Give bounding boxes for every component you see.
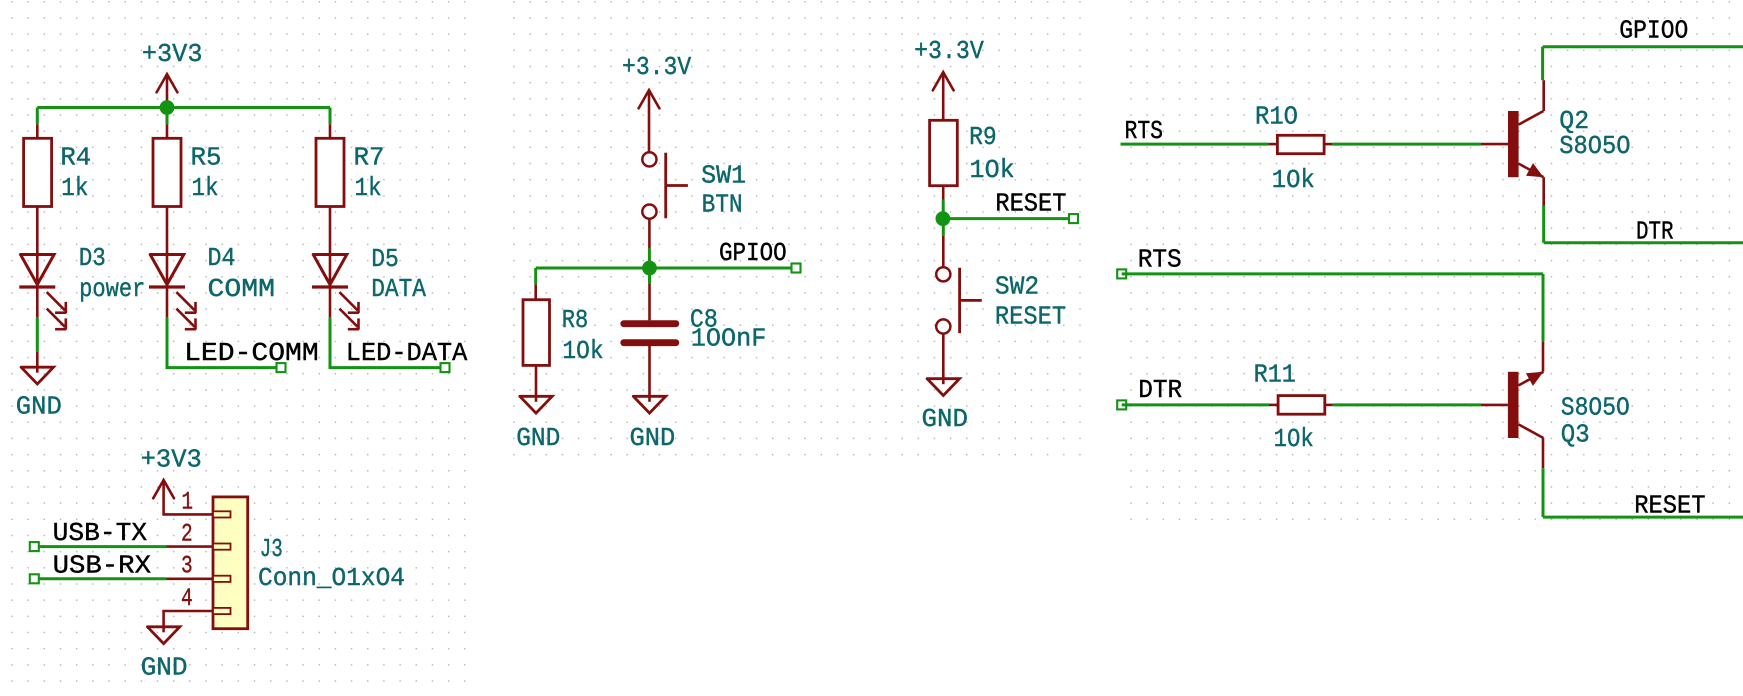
svg-text:S8O5O: S8O5O [1559, 131, 1630, 161]
svg-text:1Ok: 1Ok [970, 155, 1015, 185]
svg-text:1k: 1k [355, 173, 382, 203]
svg-text:S8O5O: S8O5O [1561, 393, 1630, 423]
svg-text:+3.3V: +3.3V [914, 36, 984, 66]
svg-text:RESET: RESET [1634, 491, 1705, 521]
svg-text:R5: R5 [191, 142, 222, 172]
svg-text:R11: R11 [1254, 359, 1296, 389]
svg-text:+3V3: +3V3 [142, 39, 203, 69]
svg-text:Conn_O1xO4: Conn_O1xO4 [258, 563, 405, 593]
svg-text:SW1: SW1 [701, 160, 746, 190]
svg-text:D4: D4 [208, 243, 236, 273]
svg-text:DTR: DTR [1636, 217, 1674, 247]
svg-text:GND: GND [630, 423, 676, 453]
svg-text:GND: GND [16, 392, 62, 422]
svg-text:GND: GND [922, 404, 969, 434]
svg-text:R4: R4 [60, 142, 91, 172]
svg-text:R9: R9 [969, 122, 997, 152]
svg-text:2: 2 [181, 520, 193, 549]
svg-text:R1O: R1O [1255, 101, 1298, 131]
svg-text:1Ok: 1Ok [1274, 424, 1314, 454]
svg-text:J3: J3 [260, 534, 283, 564]
svg-text:LED-DATA: LED-DATA [346, 338, 468, 368]
svg-text:RTS: RTS [1138, 244, 1182, 274]
svg-text:R8: R8 [562, 305, 589, 335]
svg-text:R7: R7 [354, 142, 385, 172]
svg-text:USB-TX: USB-TX [53, 518, 148, 548]
svg-text:DTR: DTR [1138, 375, 1182, 405]
svg-text:1Ok: 1Ok [1272, 165, 1315, 195]
svg-text:DATA: DATA [371, 274, 426, 304]
svg-text:GPIOO: GPIOO [719, 238, 787, 268]
svg-text:+3.3V: +3.3V [622, 52, 692, 82]
svg-text:4: 4 [181, 584, 193, 613]
svg-text:GND: GND [516, 423, 560, 453]
svg-text:RTS: RTS [1125, 116, 1164, 146]
svg-text:GND: GND [141, 653, 188, 683]
svg-text:Q3: Q3 [1561, 419, 1590, 449]
svg-text:USB-RX: USB-RX [53, 551, 152, 581]
svg-text:1: 1 [182, 488, 194, 517]
svg-text:D3: D3 [79, 243, 106, 273]
svg-text:power: power [79, 274, 145, 304]
svg-text:RESET: RESET [995, 301, 1066, 331]
svg-text:+3V3: +3V3 [141, 444, 202, 474]
svg-text:D5: D5 [371, 244, 399, 274]
svg-text:1k: 1k [61, 173, 88, 203]
svg-text:SW2: SW2 [995, 271, 1039, 301]
svg-text:RESET: RESET [995, 189, 1066, 219]
svg-text:1k: 1k [192, 173, 219, 203]
svg-text:COMM: COMM [208, 274, 276, 304]
svg-text:3: 3 [181, 552, 193, 581]
svg-text:1OOnF: 1OOnF [691, 324, 767, 354]
svg-text:GPIOO: GPIOO [1619, 15, 1688, 45]
svg-text:1Ok: 1Ok [562, 336, 603, 366]
svg-text:BTN: BTN [702, 190, 743, 220]
svg-text:LED-COMM: LED-COMM [184, 338, 319, 368]
